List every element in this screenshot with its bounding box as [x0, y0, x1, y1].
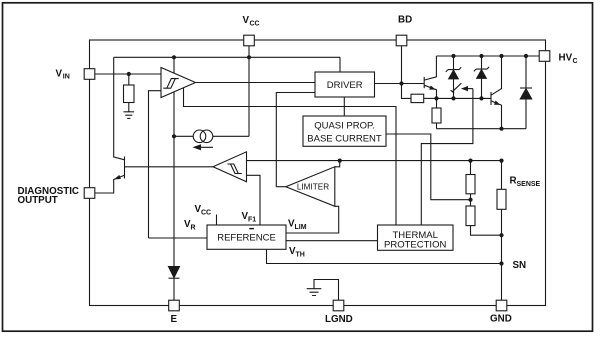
svg-text:LIM: LIM	[295, 224, 307, 231]
current source I1	[193, 130, 206, 143]
transistor Q-diag collector	[114, 57, 125, 160]
pin VIN	[84, 69, 95, 80]
resistor R1	[470, 161, 472, 175]
svg-text:LIMITER: LIMITER	[297, 183, 329, 192]
quasi box stub	[343, 97, 345, 116]
pin BD	[396, 35, 407, 46]
svg-text:SENSE: SENSE	[517, 181, 541, 188]
wire quasi output	[386, 134, 471, 200]
transistor Q2 emitter	[491, 101, 502, 129]
svg-text:C: C	[573, 58, 578, 65]
wire VIN to comp1	[95, 73, 161, 75]
pin DIAG	[84, 188, 95, 199]
hysteresis glyph U2	[227, 164, 241, 174]
node rail Q2	[499, 54, 503, 58]
driver box U3	[315, 72, 375, 97]
op-amp U1 comparator	[161, 68, 196, 98]
pin E	[169, 300, 180, 311]
wire limiter bottom to VLIM	[286, 206, 339, 233]
label minus reference	[249, 228, 254, 229]
svg-text:IN: IN	[63, 74, 70, 81]
wire feedback comp1 to thermal	[184, 88, 397, 225]
wire R-base to emitter node	[424, 97, 437, 99]
svg-text:E: E	[171, 314, 178, 325]
wire SN	[267, 249, 502, 263]
wire driver output to Q1 base	[375, 83, 425, 85]
svg-text:SN: SN	[513, 260, 527, 271]
arrowhead current source	[193, 144, 202, 150]
arrowhead Q-diag emitter	[114, 175, 121, 180]
svg-text:R: R	[191, 225, 196, 232]
node rail z1	[451, 54, 455, 58]
wire current source right lead	[213, 135, 249, 137]
svg-text:CC: CC	[201, 210, 211, 217]
wire emitter resistor stubs	[436, 98, 438, 108]
node comp1 vcc	[172, 55, 176, 59]
svg-text:BASE CURRENT: BASE CURRENT	[307, 133, 382, 144]
diode D3	[525, 56, 527, 88]
svg-text:OUTPUT: OUTPUT	[18, 195, 58, 206]
transistor Q1 base bar	[423, 77, 425, 88]
node BD driver	[399, 81, 403, 85]
svg-text:V: V	[56, 68, 63, 79]
zener Z2	[481, 56, 483, 69]
wire comp1 inverting input	[149, 91, 162, 238]
wire driver top feed	[339, 57, 341, 72]
wire comp1 output to driver	[196, 82, 316, 84]
arrowheads	[114, 86, 500, 180]
node current source E	[172, 134, 176, 138]
transistor Q1 emitter	[424, 85, 436, 98]
arrow base current sense	[464, 88, 473, 90]
node R1 R2	[468, 198, 472, 202]
svg-text:QUASI PROP.: QUASI PROP.	[314, 120, 375, 131]
wire VTH to thermal	[286, 240, 378, 242]
limiter U5	[286, 167, 335, 207]
wire current source left lead	[174, 135, 193, 137]
node rail z2	[479, 54, 483, 58]
ground symbol LGND	[307, 289, 322, 296]
wire comp2 lower input VF1	[247, 175, 261, 225]
wire LGND elbow	[314, 280, 339, 301]
wire sense drop to thermal	[421, 89, 473, 225]
transistor Q2 base bar	[490, 92, 492, 105]
pin GND	[496, 300, 507, 311]
resistor RSENSE	[501, 161, 503, 190]
arrowhead Q1 emitter	[429, 86, 435, 90]
pin LGND	[333, 300, 344, 311]
hysteresis glyph U1	[163, 79, 178, 89]
svg-text:REFERENCE: REFERENCE	[217, 233, 276, 244]
node R1 top	[468, 159, 472, 163]
current tap blade	[451, 83, 462, 93]
wire limiter output	[276, 186, 286, 188]
transistor Q-diag emitter	[95, 175, 125, 193]
transistor Q1 collector	[424, 56, 436, 80]
node emitter row	[499, 127, 503, 131]
transistor Q-diag base bar	[124, 157, 126, 179]
wire sense net long	[247, 160, 502, 162]
wire collector rail	[436, 55, 539, 57]
node emitter Q1	[434, 96, 438, 100]
svg-text:CC: CC	[250, 21, 260, 28]
transistor Q2 collector	[491, 56, 502, 95]
resistor R-in	[124, 85, 135, 103]
svg-text:F1: F1	[248, 217, 256, 224]
wire VCC pin drop	[248, 46, 250, 137]
node rail D3	[524, 54, 528, 58]
svg-text:TH: TH	[296, 252, 305, 259]
wire emitter node row	[437, 128, 527, 130]
node z1 base row	[451, 96, 455, 100]
wire comp1 emitter line to E	[173, 92, 175, 266]
wire comp1 power tap	[173, 57, 175, 73]
wire reference VCC stub	[216, 215, 218, 226]
wire driver lower input	[276, 93, 315, 187]
diode D-E	[169, 267, 180, 278]
svg-text:LGND: LGND	[325, 314, 353, 325]
pin HVC	[539, 51, 550, 62]
node rsense top	[499, 159, 503, 163]
wire base node row	[437, 97, 492, 99]
svg-text:GND: GND	[490, 314, 512, 325]
quasi box U4	[303, 116, 386, 146]
svg-text:V: V	[243, 15, 250, 26]
svg-text:BD: BD	[398, 15, 412, 26]
wire VR to reference	[149, 237, 208, 239]
wire E diode to pin	[173, 278, 175, 300]
node SN	[499, 261, 503, 265]
arrow current source	[196, 146, 213, 148]
inner schematic border	[90, 40, 546, 306]
wire BD drop	[401, 46, 403, 84]
wire limiter top jog	[335, 161, 340, 167]
node vcc drop	[247, 55, 251, 59]
op-amp U2 comparator	[213, 152, 247, 182]
ground symbol input	[124, 112, 135, 119]
node z2 base row	[479, 96, 483, 100]
node VIN-R	[127, 72, 131, 76]
resistor R2	[470, 200, 472, 206]
wire VCC spine y57	[114, 56, 340, 58]
resistor R-base	[411, 94, 424, 102]
pin squares	[84, 35, 550, 311]
svg-text:HV: HV	[559, 53, 573, 64]
wire resistor R-in tap	[128, 74, 130, 85]
wire comp2 output to Q-diag base	[125, 166, 214, 168]
pin VCC	[244, 35, 255, 46]
node rsense bottom	[499, 233, 503, 237]
node limiter tap	[338, 159, 342, 163]
thermal box U7	[378, 225, 454, 250]
wire R-in to ground	[128, 103, 130, 112]
reference box U6	[207, 225, 286, 249]
zener Z1	[453, 56, 455, 69]
svg-text:PROTECTION: PROTECTION	[384, 239, 446, 250]
wire base resistor feed	[402, 84, 412, 99]
arrowhead Q2 emitter	[494, 101, 500, 105]
svg-text:DRIVER: DRIVER	[327, 80, 363, 91]
arrowhead sense arrow	[461, 86, 468, 91]
